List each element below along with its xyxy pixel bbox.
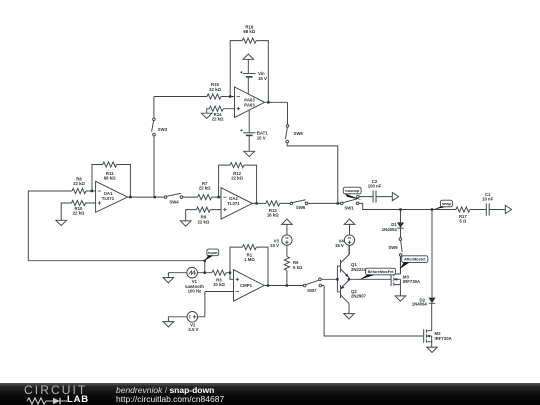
svg-text:SW3: SW3 xyxy=(158,127,168,132)
svg-text:22 kΩ: 22 kΩ xyxy=(199,186,211,191)
svg-text:nosnap: nosnap xyxy=(345,188,359,193)
svg-text:BeforeMosFet: BeforeMosFet xyxy=(368,269,395,274)
svg-text:22 kΩ: 22 kΩ xyxy=(231,176,243,181)
svg-text:SW7: SW7 xyxy=(307,288,317,293)
svg-text:15 V: 15 V xyxy=(335,243,344,248)
svg-text:68 kΩ: 68 kΩ xyxy=(104,176,116,181)
svg-text:1N4004: 1N4004 xyxy=(382,227,398,232)
svg-text:1N4004: 1N4004 xyxy=(412,302,428,307)
svg-text:SW5: SW5 xyxy=(294,131,304,136)
svg-text:5 Ω: 5 Ω xyxy=(459,219,467,224)
svg-text:SW9: SW9 xyxy=(388,245,398,250)
svg-text:100 Hz: 100 Hz xyxy=(188,288,202,293)
svg-text:16 kΩ: 16 kΩ xyxy=(267,213,279,218)
svg-text:68 kΩ: 68 kΩ xyxy=(243,29,255,34)
svg-text:IRF730A: IRF730A xyxy=(403,279,420,284)
svg-text:CMP1: CMP1 xyxy=(240,283,253,288)
svg-text:input: input xyxy=(208,250,218,255)
svg-text:2N2907: 2N2907 xyxy=(351,294,367,299)
svg-text:1 MΩ: 1 MΩ xyxy=(244,257,255,262)
svg-text:AfterMosfet: AfterMosfet xyxy=(404,257,426,262)
svg-text:SW6: SW6 xyxy=(296,205,306,210)
svg-text:100 nF: 100 nF xyxy=(368,184,382,189)
svg-text:TL071: TL071 xyxy=(227,201,240,206)
svg-text:22 kΩ: 22 kΩ xyxy=(209,87,221,92)
svg-text:SW1: SW1 xyxy=(344,205,354,210)
svg-text:15 V: 15 V xyxy=(257,135,266,140)
svg-text:15 V: 15 V xyxy=(270,243,279,248)
svg-text:22 kΩ: 22 kΩ xyxy=(73,181,85,186)
svg-text:PA63: PA63 xyxy=(244,102,255,107)
svg-text:22 kΩ: 22 kΩ xyxy=(212,117,224,122)
svg-text:22 kΩ: 22 kΩ xyxy=(73,211,85,216)
svg-text:10 nF: 10 nF xyxy=(482,197,494,202)
svg-text:IRF730A: IRF730A xyxy=(435,336,452,341)
svg-text:-2.5 V: -2.5 V xyxy=(187,327,199,332)
svg-text:2N2222: 2N2222 xyxy=(351,267,367,272)
svg-text:15 V: 15 V xyxy=(258,76,267,81)
svg-text:snap: snap xyxy=(442,201,452,206)
svg-text:5 kΩ: 5 kΩ xyxy=(293,265,303,270)
svg-text:TL071: TL071 xyxy=(102,196,115,201)
svg-text:SW4: SW4 xyxy=(169,199,179,204)
svg-text:22 kΩ: 22 kΩ xyxy=(197,219,209,224)
svg-text:10 kΩ: 10 kΩ xyxy=(213,282,225,287)
